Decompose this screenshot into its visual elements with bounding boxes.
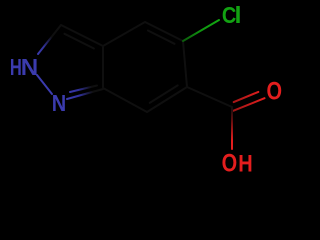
svg-text:N: N: [52, 90, 66, 117]
bond N2 = fusion-bottom-C (double, inner line, blue half): [70, 86, 97, 93]
bond N2 = fusion-bottom-C (double, main line, blue half): [67, 89, 103, 99]
svg-text:l: l: [235, 3, 242, 29]
bond C7 to fusion-bottom-C (benzene bottom-left edge): [103, 88, 147, 112]
bond pyrazole-apex-C = fusion-top-C (double, inner line): [65, 34, 94, 49]
label HN (N1 nitrogen with H): [10, 55, 38, 81]
bond pyrazole-apex-C = fusion-top-C (double, main line): [61, 25, 103, 46]
bond C=O (double, main line, red): [234, 98, 265, 111]
bond N1-pyrazole-apex-C (blue half): [38, 25, 61, 54]
bond C4 = C5 (double, inner line): [148, 31, 175, 44]
bond C6-carboxyl-C: [187, 87, 232, 107]
svg-text:N: N: [21, 55, 38, 80]
bond carboxyl-C to OH (red half): [231, 107, 233, 149]
bond C6 = C7 (double, main line, benzene bottom-right edge): [147, 87, 187, 112]
svg-text:O: O: [222, 149, 238, 176]
bond fusion-top-C to C4 (benzene top-left edge): [103, 22, 145, 46]
fusion bond (shared edge of pyrazole and benzene rings): [102, 46, 104, 88]
bond N1-N2: [37, 75, 52, 94]
label OH (hydroxyl): [222, 149, 253, 177]
label Cl (chlorine): [222, 2, 242, 29]
svg-text:O: O: [267, 78, 283, 106]
bond C5-Cl (green): [183, 20, 219, 41]
bond C4 = C5 (double, main line, benzene top-right edge): [145, 22, 183, 41]
svg-text:H: H: [238, 150, 252, 176]
bond C6 = C7 (double, inner line): [150, 85, 178, 103]
bond C5-C6 (benzene right edge): [183, 41, 187, 87]
bond C=O (double, inner line, red): [234, 92, 259, 102]
